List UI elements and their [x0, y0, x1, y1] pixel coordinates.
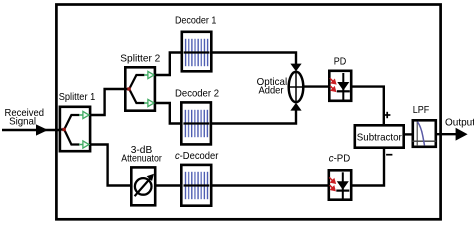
svg-text:Subtractor: Subtractor: [357, 132, 403, 143]
svg-text:Splitter 2: Splitter 2: [120, 54, 160, 65]
svg-text:Signal: Signal: [9, 117, 36, 128]
svg-text:Adder: Adder: [259, 86, 285, 97]
svg-text:Decoder 1: Decoder 1: [175, 15, 217, 26]
svg-text:LPF: LPF: [413, 105, 430, 116]
svg-text:Decoder 2: Decoder 2: [175, 88, 219, 99]
svg-text:Output: Output: [445, 118, 474, 129]
svg-text:c-Decoder: c-Decoder: [175, 151, 219, 162]
svg-text:PD: PD: [334, 56, 347, 67]
svg-text:Attenuator: Attenuator: [121, 153, 162, 164]
svg-text:c-PD: c-PD: [329, 154, 351, 165]
svg-text:Splitter 1: Splitter 1: [59, 92, 96, 103]
